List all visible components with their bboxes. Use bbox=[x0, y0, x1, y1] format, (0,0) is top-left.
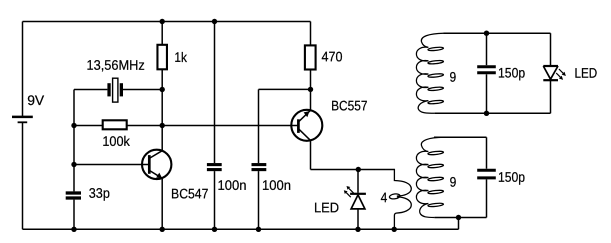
svg-text:9V: 9V bbox=[27, 93, 45, 108]
svg-text:100k: 100k bbox=[102, 134, 130, 149]
svg-text:470: 470 bbox=[322, 49, 343, 64]
svg-text:BC547: BC547 bbox=[171, 186, 208, 201]
svg-text:100n: 100n bbox=[262, 178, 291, 193]
svg-text:LED: LED bbox=[314, 200, 339, 215]
svg-text:100n: 100n bbox=[217, 178, 246, 193]
svg-text:13,56MHz: 13,56MHz bbox=[87, 58, 145, 73]
svg-text:BC557: BC557 bbox=[331, 98, 367, 113]
svg-text:4: 4 bbox=[381, 190, 388, 205]
svg-text:9: 9 bbox=[450, 175, 457, 190]
svg-text:1k: 1k bbox=[174, 50, 187, 65]
svg-text:33p: 33p bbox=[89, 186, 110, 201]
svg-text:150p: 150p bbox=[498, 66, 525, 81]
svg-text:LED: LED bbox=[575, 66, 598, 81]
svg-text:150p: 150p bbox=[498, 170, 525, 185]
svg-text:9: 9 bbox=[450, 70, 457, 85]
